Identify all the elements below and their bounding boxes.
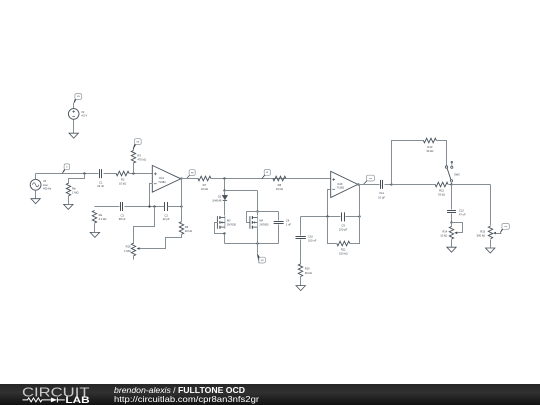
svg-text:1N4148: 1N4148	[212, 198, 222, 202]
junction M3 gate-source tie	[223, 232, 225, 234]
svg-text:C9: C9	[341, 223, 345, 227]
junction C2/R6/output	[180, 205, 182, 207]
svg-text:R12: R12	[439, 188, 444, 192]
capacitor C2 22 pF	[165, 202, 168, 211]
wire switch pole down	[451, 182, 453, 185]
wire output to C11	[358, 184, 380, 186]
junction feedback / R16 branch	[153, 205, 155, 207]
junction R3/main	[132, 172, 134, 174]
junction clip node on main wire	[223, 177, 225, 179]
wire C3 to C2	[125, 206, 165, 208]
capacitor C4 1 nF	[274, 222, 284, 224]
svg-text:R10: R10	[305, 267, 310, 271]
resistor R8 10 kΩ	[273, 176, 286, 181]
svg-text:39 kΩ: 39 kΩ	[305, 271, 312, 275]
svg-text:R8: R8	[278, 183, 282, 187]
svg-text:R11: R11	[341, 247, 346, 251]
svg-text:10 kΩ: 10 kΩ	[119, 182, 126, 186]
svg-text:C10: C10	[308, 234, 313, 238]
resistor R12 33 kΩ	[435, 182, 448, 187]
resistor R13 33 kΩ	[423, 138, 436, 143]
wire top of C4	[258, 211, 279, 213]
svg-text:R2: R2	[121, 178, 125, 182]
transistor M3 2N7000	[217, 216, 225, 229]
svg-text:TL082: TL082	[158, 180, 166, 184]
svg-text:100 kΩ: 100 kΩ	[339, 252, 348, 256]
resistor R6 20 kΩ	[179, 222, 183, 235]
ground below Rin	[64, 204, 73, 209]
svg-text:Ra: Ra	[99, 213, 103, 217]
wire to R11 left	[328, 217, 337, 244]
switch SW3	[445, 161, 453, 181]
svg-text:Rin: Rin	[72, 186, 77, 190]
wire up to R13	[392, 141, 424, 185]
wire R11 right up	[350, 217, 360, 244]
wire C10 to R10	[300, 240, 302, 265]
junction M4 gate-drain tie	[256, 210, 258, 212]
wire op-amp2 inverting input down	[328, 190, 331, 217]
capacitor C11 10 µF	[381, 180, 383, 189]
potentiometer R14 10 kΩ	[449, 227, 453, 240]
sine source V0 400 Hz	[30, 179, 52, 190]
wire to C10	[300, 217, 302, 236]
wire down to R15	[490, 185, 492, 226]
ground below R10	[296, 286, 305, 291]
node flag VB below clip network	[257, 254, 265, 263]
wire output to R7	[181, 178, 199, 180]
svg-text:TL082: TL082	[337, 186, 345, 190]
ground below R15	[486, 248, 495, 253]
op-amp OA1 TL082	[152, 165, 181, 192]
wire to D1 anode	[224, 191, 226, 196]
wire M3 source down	[224, 234, 226, 244]
wire Rin to ground	[68, 196, 70, 205]
svg-text:1 nF: 1 nF	[286, 222, 292, 226]
svg-text:LAB: LAB	[65, 395, 89, 405]
wire R10 to ground	[300, 277, 302, 286]
junction feedback / inverting input	[148, 205, 150, 207]
svg-text:R16: R16	[126, 245, 131, 249]
wire C1 to R2	[104, 173, 117, 175]
potentiometer R16 1 MΩ	[131, 243, 135, 256]
junction R14 top	[450, 221, 452, 223]
junction input/Rin	[83, 172, 85, 174]
resistor R2 10 kΩ	[116, 171, 129, 176]
wire feedback2 right	[346, 216, 360, 218]
svg-text:22 nF: 22 nF	[97, 184, 104, 188]
wire R14 wiper loop	[452, 223, 463, 233]
ground below V0	[31, 199, 40, 204]
wire Ra to C3	[95, 206, 120, 208]
wire V0 to main	[35, 174, 37, 180]
wire to R12	[392, 184, 436, 186]
node flag d1	[262, 170, 271, 179]
wire C2 to R6 node	[168, 206, 182, 208]
wire down to C12	[451, 185, 453, 210]
svg-text:R3: R3	[137, 153, 141, 157]
ground below V2	[69, 133, 78, 138]
wire clip bottom rail	[225, 243, 279, 245]
wire down to clip branch	[224, 179, 226, 191]
wire R3 bottom	[133, 163, 135, 174]
wire C4 top	[278, 212, 280, 221]
node flag in	[62, 164, 69, 174]
wire branch to M4 side	[225, 190, 258, 192]
svg-text:68 nF: 68 nF	[119, 217, 126, 221]
wire op-amp1 output down	[181, 179, 183, 207]
stub R16 bottom	[133, 256, 135, 260]
wire output down to feedback	[359, 185, 361, 217]
junction inverting2 node	[326, 215, 328, 217]
svg-text:22 pF: 22 pF	[163, 217, 170, 221]
junction feedback2/output leg	[358, 215, 360, 217]
wire V2 top	[73, 104, 75, 109]
wire C12 to R14	[451, 214, 453, 223]
svg-text:out: out	[504, 225, 507, 228]
svg-text:4.5 V: 4.5 V	[81, 114, 87, 118]
svg-text:OA1: OA1	[159, 176, 165, 180]
svg-text:D1: D1	[218, 194, 222, 198]
diode D1 1N4148	[212, 194, 227, 202]
svg-text:100 nF: 100 nF	[308, 239, 317, 243]
node flag out	[500, 224, 509, 233]
resistor R11 100 kΩ	[337, 241, 350, 246]
svg-text:R7: R7	[203, 183, 207, 187]
svg-text:SW3: SW3	[454, 172, 460, 176]
transistor M4 2N7000	[250, 216, 258, 229]
wiper arrow R14	[454, 232, 457, 235]
wire R14 top lead	[451, 223, 453, 227]
wire input net left segment	[36, 173, 99, 175]
wire C4 bottom	[278, 225, 280, 244]
junction tone split	[390, 183, 392, 185]
svg-text:500 kΩ: 500 kΩ	[477, 234, 486, 238]
wire M4 drain	[257, 212, 259, 216]
svg-text:2N7000: 2N7000	[227, 223, 237, 227]
svg-text:C2: C2	[164, 213, 168, 217]
svg-text:R6: R6	[185, 225, 189, 229]
wire op-amp1 inverting input down	[150, 184, 153, 207]
svg-text:V0: V0	[43, 179, 47, 183]
svg-text:out: out	[369, 177, 372, 180]
wiper arrow R15	[493, 232, 496, 235]
svg-text:470 kΩ: 470 kΩ	[137, 157, 146, 161]
svg-text:1 MΩ: 1 MΩ	[124, 249, 131, 253]
wire R13 to switch throw	[437, 141, 447, 166]
wire R2 to op-amp +	[130, 173, 153, 175]
svg-text:10 µF: 10 µF	[378, 195, 385, 199]
svg-text:http://circuitlab.com/cpr8an3n: http://circuitlab.com/cpr8an3nfs2gr	[114, 394, 259, 404]
node flag VB (bias supply)	[74, 94, 82, 104]
svg-text:10 kΩ: 10 kΩ	[201, 187, 208, 191]
wire V2 bottom	[73, 120, 75, 134]
node flag FB	[187, 170, 196, 179]
svg-text:R14: R14	[442, 229, 447, 233]
wire R15 wiper out	[496, 233, 502, 235]
svg-text:sine: sine	[43, 183, 48, 187]
svg-text:2N7000: 2N7000	[259, 223, 269, 227]
resistor Rin 1 MΩ	[66, 183, 70, 196]
wire R14 to ground	[451, 240, 453, 248]
resistor Ra 2.2 kΩ	[92, 211, 96, 224]
wire Ra to ground	[94, 224, 96, 233]
wire C11 to junction	[385, 184, 392, 186]
svg-text:10 kΩ: 10 kΩ	[276, 187, 283, 191]
svg-text:C12: C12	[459, 208, 464, 212]
node flag VB at R3	[133, 139, 141, 150]
wire R7 to op-amp2 +	[211, 178, 331, 180]
wire branch to R16 top	[134, 207, 155, 244]
svg-text:1 MΩ: 1 MΩ	[72, 190, 79, 194]
ground below Ra	[90, 232, 99, 237]
wire R15 to ground	[490, 240, 492, 248]
resistor R3 470 kΩ	[131, 150, 135, 163]
ground below R14	[447, 247, 456, 252]
svg-text:20 kΩ: 20 kΩ	[185, 229, 192, 233]
junction switch/main	[450, 183, 452, 185]
svg-text:C3: C3	[120, 213, 124, 217]
junction clip branch	[223, 189, 225, 191]
junction op-amp1 output	[180, 177, 182, 179]
wire R12 to switch pole node	[449, 184, 452, 186]
svg-text:C4: C4	[286, 218, 290, 222]
junction op-amp2 output	[357, 183, 359, 185]
svg-text:OA6: OA6	[337, 182, 343, 186]
wiper arrow R16	[137, 247, 140, 250]
capacitor C9 220 pF	[342, 212, 345, 221]
wire M4 source down	[257, 229, 259, 244]
svg-text:M4: M4	[259, 218, 263, 222]
svg-text:47 nF: 47 nF	[459, 213, 466, 217]
wire to Rin	[69, 174, 85, 184]
resistor R7 10 kΩ	[198, 176, 211, 181]
svg-text:V2: V2	[81, 110, 85, 114]
capacitor C3 68 nF	[121, 202, 123, 211]
wire down to M4 gate box	[257, 191, 259, 212]
potentiometer R15 500 kΩ	[488, 226, 492, 239]
wire to VB flag	[257, 244, 259, 254]
svg-text:R13: R13	[427, 145, 432, 149]
svg-text:33 kΩ: 33 kΩ	[426, 149, 433, 153]
wire R3 top	[133, 149, 135, 151]
svg-text:400 Hz: 400 Hz	[43, 186, 52, 190]
wire D1 to M3 drain	[224, 201, 226, 216]
capacitor C10 100 nF	[296, 237, 306, 239]
svg-text:M3: M3	[227, 218, 231, 222]
capacitor C1 22 nF	[100, 169, 102, 178]
wire feedback2 left	[301, 216, 341, 218]
svg-text:R15: R15	[480, 229, 485, 233]
wire to R6	[181, 207, 183, 222]
svg-text:10 kΩ: 10 kΩ	[440, 234, 447, 238]
node flag at op-amp2 output	[364, 175, 375, 184]
wire V0 bottom	[35, 191, 37, 199]
voltage source V2 4.5V	[68, 109, 87, 120]
svg-text:C1: C1	[99, 180, 103, 184]
capacitor C12 47 nF	[447, 211, 456, 213]
footer bar	[0, 384, 540, 405]
logo resistor-diode glyph	[23, 397, 65, 402]
op-amp OA6 TL082	[331, 171, 358, 197]
wire to R15 branch	[452, 184, 491, 186]
svg-text:2.2 kΩ: 2.2 kΩ	[99, 217, 107, 221]
junction bottom rail / VB	[256, 242, 258, 244]
wire R6 to R16 wiper	[140, 235, 182, 249]
svg-text:33 kΩ: 33 kΩ	[438, 193, 445, 197]
svg-text:C11: C11	[379, 191, 384, 195]
resistor R10 39 kΩ	[298, 264, 302, 277]
svg-text:220 pF: 220 pF	[339, 228, 348, 232]
